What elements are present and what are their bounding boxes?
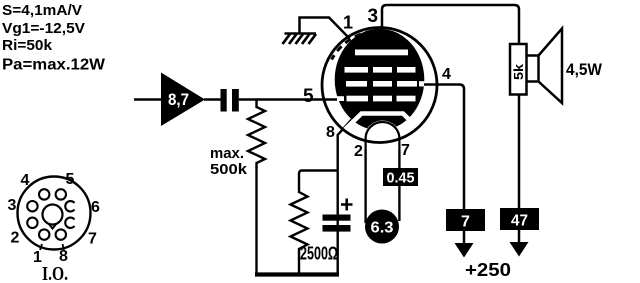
grid row 2 dashes (screen grid, pin 4) — [346, 81, 367, 87]
coupling capacitor — [221, 89, 239, 112]
wire bottom rail — [255, 272, 339, 276]
svg-text:Ri=50k: Ri=50k — [2, 37, 53, 54]
tube EL triode-pentode envelope and electrodes — [322, 28, 437, 154]
socket pin 1 hole — [39, 229, 49, 239]
svg-text:4: 4 — [21, 172, 30, 189]
tube socket I.O. bottom view — [8, 171, 101, 283]
socket circle — [18, 177, 91, 250]
wire heater pin 7 — [398, 150, 400, 221]
svg-text:8,7: 8,7 — [168, 90, 189, 109]
wire 500k bottom lead — [255, 167, 257, 275]
grid row 1 dashes — [345, 67, 369, 73]
svg-text:5: 5 — [66, 171, 75, 188]
socket label 8 leader — [63, 244, 65, 250]
svg-text:Pa=max.12W: Pa=max.12W — [2, 57, 106, 74]
svg-text:Vg1=-12,5V: Vg1=-12,5V — [2, 20, 85, 37]
resistor max.500k grid leak — [210, 100, 265, 179]
svg-text:S=4,1mA/V: S=4,1mA/V — [2, 2, 82, 19]
input source symbol 8,7 — [161, 73, 205, 127]
wire cathode lead pin 8 — [338, 120, 352, 276]
loudspeaker 4,5W — [527, 29, 603, 104]
heater current label 0.45 — [383, 168, 418, 187]
svg-text:3: 3 — [8, 197, 17, 214]
output transformer primary 5k — [510, 44, 527, 95]
svg-text:1: 1 — [33, 249, 42, 266]
svg-text:0.45: 0.45 — [387, 170, 415, 187]
wire grid node: capacitor to pin 5 — [239, 98, 340, 101]
wire cathode branch to 2500 ohm resistor — [299, 171, 338, 194]
cathode electrode — [344, 114, 410, 131]
svg-text:4: 4 — [442, 66, 451, 83]
svg-text:max.: max. — [210, 145, 244, 162]
wire pin 4 screen grid — [424, 85, 464, 211]
svg-text:+250: +250 — [465, 260, 511, 280]
socket pin 8 hole — [56, 229, 66, 239]
heater arch outline — [366, 122, 400, 151]
svg-text:2: 2 — [11, 230, 20, 247]
svg-text:5: 5 — [303, 86, 314, 107]
svg-text:6.3: 6.3 — [371, 220, 394, 237]
wire stub to supply arrow (anode) — [518, 230, 521, 244]
svg-text:6: 6 — [91, 199, 100, 216]
envelope circle — [322, 28, 437, 143]
wire ground to pin 1 — [300, 18, 350, 39]
heater voltage label 6.3 — [365, 210, 399, 244]
anode current label 47 — [500, 208, 539, 230]
svg-text:1: 1 — [343, 13, 353, 33]
capacitor electrolytic cathode bypass — [323, 199, 353, 232]
svg-text:47: 47 — [511, 213, 528, 230]
ground symbol — [283, 34, 317, 45]
socket pin 6 hole (C shaped) — [65, 201, 74, 211]
socket pin 3 hole — [27, 201, 37, 211]
supply arrow anode — [510, 242, 529, 257]
svg-text:500k: 500k — [210, 161, 248, 178]
socket pin 4 hole — [39, 189, 49, 199]
wire heater pin 2 — [364, 150, 366, 223]
svg-text:7: 7 — [88, 231, 97, 248]
grid row 3 dashes (control grid, pin 5) — [347, 96, 369, 102]
svg-text:3: 3 — [368, 6, 379, 27]
heater tunnel white area — [364, 121, 401, 154]
svg-text:8: 8 — [326, 124, 335, 141]
svg-text:7: 7 — [401, 142, 410, 159]
socket label 1 leader — [40, 244, 42, 250]
wire 5k to anode supply — [518, 95, 521, 211]
svg-text:7: 7 — [461, 214, 470, 231]
screen current label 7 — [446, 209, 485, 231]
socket pin 5 hole — [56, 189, 66, 199]
wire source to coupling capacitor — [204, 98, 222, 101]
svg-text:5k: 5k — [511, 63, 526, 80]
electrode system black disc — [335, 29, 425, 131]
resistor 2500 ohm cathode bias — [291, 192, 339, 275]
svg-text:4,5W: 4,5W — [566, 60, 603, 79]
anode plate bar — [355, 50, 408, 56]
socket center hole with key — [43, 205, 63, 225]
socket pin 2 hole — [27, 218, 37, 228]
wire stub to supply arrow (screen) — [463, 231, 466, 245]
svg-text:I.O.: I.O. — [42, 263, 68, 283]
internal shield dashed arc (pin 1) — [332, 31, 372, 59]
svg-text:2500Ω: 2500Ω — [300, 244, 338, 264]
svg-text:2: 2 — [354, 143, 363, 160]
wire pin 3 to output transformer 5k — [382, 5, 519, 45]
socket pin 7 hole (C shaped) — [65, 218, 74, 228]
wire input lead — [134, 98, 162, 101]
supply arrow screen — [455, 243, 474, 258]
